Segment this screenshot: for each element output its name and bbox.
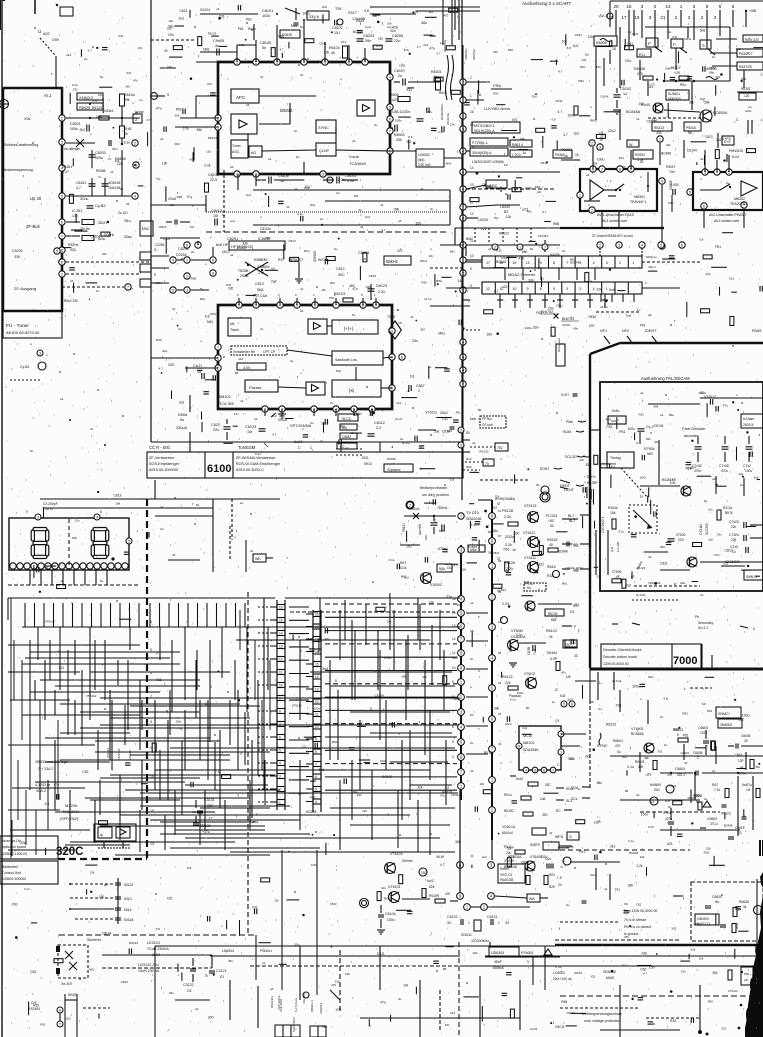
svg-text:P624: P624 <box>509 644 513 652</box>
svg-text:10: 10 <box>315 725 319 729</box>
svg-text:3Cnu: 3Cnu <box>80 197 88 201</box>
svg-text:10: 10 <box>452 666 456 670</box>
svg-text:9: 9 <box>315 738 317 742</box>
svg-text:Nu.: Nu. <box>715 900 720 904</box>
svg-text:EC: EC <box>556 809 561 813</box>
svg-text:2u2: 2u2 <box>567 698 573 702</box>
svg-text:C1al: C1al <box>260 294 267 298</box>
svg-text:X31: X31 <box>715 75 721 79</box>
svg-text:2u: 2u <box>664 743 668 747</box>
svg-text:Cu: Cu <box>160 527 164 531</box>
svg-text:A919.00-3000/00: A919.00-3000/00 <box>149 468 178 472</box>
svg-text:X31: X31 <box>729 276 735 280</box>
svg-text:5: 5 <box>279 749 281 753</box>
svg-text:Scr 2.1: Scr 2.1 <box>698 626 708 630</box>
svg-text:R6905: R6905 <box>596 41 607 45</box>
svg-text:R815a: R815a <box>124 93 135 97</box>
svg-text:C62: C62 <box>168 363 174 367</box>
svg-text:470: 470 <box>190 157 195 161</box>
svg-text:9: 9 <box>527 287 529 291</box>
svg-text:SMN?S: SMN?S <box>746 575 757 579</box>
svg-text:BC848: BC848 <box>496 260 506 264</box>
svg-text:39k: 39k <box>653 405 658 409</box>
svg-text:2u8: 2u8 <box>540 797 546 801</box>
svg-text:NDSu/u: NDSu/u <box>646 255 657 259</box>
svg-text:BC848: BC848 <box>724 823 733 827</box>
svg-text:C63B: C63B <box>527 647 531 655</box>
svg-text:SH8-: SH8- <box>124 127 133 131</box>
svg-text:1: 1 <box>645 281 647 285</box>
svg-text:C7x24: C7x24 <box>729 533 739 537</box>
svg-text:C62: C62 <box>82 770 88 774</box>
svg-text:5n: 5n <box>262 46 266 50</box>
svg-text:X5/370A: X5/370A <box>117 748 121 760</box>
svg-text:C8105: C8105 <box>260 41 271 45</box>
svg-text:DCNT: DCNT <box>564 488 575 492</box>
svg-text:1u: 1u <box>257 741 261 745</box>
svg-text:6.8: 6.8 <box>665 799 670 803</box>
svg-text:5u6: 5u6 <box>626 314 631 318</box>
svg-text:FPTsu: FPTsu <box>482 417 492 421</box>
svg-text:C813: C813 <box>521 861 529 865</box>
svg-text:u2: u2 <box>110 170 114 174</box>
svg-text:u23: u23 <box>392 98 398 102</box>
svg-text:10r: 10r <box>213 214 219 218</box>
svg-text:E2: E2 <box>220 975 224 979</box>
svg-text:22n: 22n <box>731 525 737 529</box>
svg-text:33n: 33n <box>580 458 585 462</box>
svg-text:6.8: 6.8 <box>552 117 556 121</box>
svg-text:R52: R52 <box>707 709 713 713</box>
svg-text:5C: 5C <box>550 524 555 528</box>
svg-text:4.00: 4.00 <box>243 366 250 370</box>
svg-text:C813: C813 <box>705 135 713 139</box>
svg-text:C9h05: C9h05 <box>213 39 224 43</box>
svg-text:C8103: C8103 <box>345 174 356 178</box>
svg-text:U-KYBD-Norm: U-KYBD-Norm <box>484 106 511 111</box>
svg-text:R7904: R7904 <box>644 447 655 451</box>
svg-text:U: U <box>38 29 41 34</box>
svg-text:1u: 1u <box>552 700 556 704</box>
svg-text:P61: P61 <box>40 1022 46 1026</box>
svg-text:4.7: 4.7 <box>563 133 568 137</box>
svg-text:10r: 10r <box>190 225 194 229</box>
svg-text:2u 5u0: 2u 5u0 <box>636 593 646 597</box>
svg-text:sync: sync <box>365 25 372 29</box>
svg-text:B4V1CC: B4V1CC <box>697 922 710 926</box>
svg-text:R6133: R6133 <box>548 612 558 616</box>
svg-text:LE3121: LE3121 <box>147 941 160 945</box>
svg-text:5FA9100: 5FA9100 <box>668 97 681 101</box>
svg-text:VT6101: VT6101 <box>388 885 401 889</box>
svg-text:R6123: R6123 <box>208 32 217 36</box>
svg-text:a: a <box>650 431 652 435</box>
svg-text:E5u: E5u <box>200 297 206 301</box>
svg-text:P61: P61 <box>683 733 689 737</box>
svg-text:7u: 7u <box>108 157 112 161</box>
svg-text:N6302/SDA: N6302/SDA <box>440 104 444 120</box>
svg-text:Decoder bottom board: Decoder bottom board <box>603 655 637 659</box>
svg-text:22k: 22k <box>642 952 648 956</box>
svg-text:2/32x: 2/32x <box>505 535 514 539</box>
svg-text:5j1k: 5j1k <box>439 567 446 571</box>
svg-text:16: 16 <box>470 145 474 149</box>
svg-text:R32: R32 <box>580 65 586 69</box>
svg-text:15n: 15n <box>75 519 80 523</box>
svg-text:100u: 100u <box>745 469 752 473</box>
svg-text:12k: 12k <box>582 58 587 62</box>
svg-text:1k2: 1k2 <box>66 1017 71 1021</box>
svg-text:u5: u5 <box>246 103 250 107</box>
svg-text:u5: u5 <box>126 202 130 206</box>
svg-text:Pin 4 is co-nected: Pin 4 is co-nected <box>624 925 651 929</box>
svg-text:15: 15 <box>612 47 616 51</box>
svg-text:22k: 22k <box>640 855 645 859</box>
svg-text:Fazant: Fazant <box>249 385 262 390</box>
svg-text:5: 5 <box>579 261 581 265</box>
svg-text:3C!: 3C! <box>572 455 577 459</box>
svg-text:100u: 100u <box>176 720 182 724</box>
svg-text:u23: u23 <box>502 285 508 289</box>
svg-text:13P: 13P <box>738 759 744 763</box>
svg-text:+5C: +5C <box>548 519 555 523</box>
svg-text:9: 9 <box>279 697 281 701</box>
svg-text:FRA: FRA <box>493 83 501 88</box>
svg-text:M61: M61 <box>291 24 298 28</box>
svg-text:NCO: NCO <box>222 250 230 254</box>
svg-text:111k: 111k <box>400 566 407 570</box>
svg-text:5u: 5u <box>100 75 104 79</box>
svg-text:Pb: Pb <box>695 615 699 619</box>
svg-text:47k: 47k <box>445 892 451 896</box>
svg-text:4: 4 <box>240 752 242 756</box>
svg-text:BC848: BC848 <box>550 253 560 257</box>
svg-text:2.2k: 2.2k <box>338 178 345 182</box>
svg-text:19: 19 <box>315 613 319 617</box>
svg-text:33n: 33n <box>242 242 248 246</box>
svg-text:L: L <box>684 687 686 691</box>
svg-text:MA/1u0: MA/1u0 <box>502 831 513 835</box>
svg-text:ELI: ELI <box>639 52 645 57</box>
svg-text:u23: u23 <box>724 562 729 566</box>
svg-text:15n: 15n <box>415 221 421 225</box>
svg-text:TuNGSM: TuNGSM <box>238 445 256 450</box>
svg-text:R6123: R6123 <box>479 449 488 453</box>
svg-text:BC848: BC848 <box>382 775 392 779</box>
svg-text:5u0: 5u0 <box>310 203 315 207</box>
svg-text:470: 470 <box>310 796 316 800</box>
svg-text:56n: 56n <box>450 249 455 253</box>
svg-text:C9uD: C9uD <box>168 197 177 201</box>
svg-text:C811: C811 <box>684 37 691 41</box>
svg-text:12k: 12k <box>362 809 367 813</box>
svg-text:(1)2: (1)2 <box>610 546 614 552</box>
svg-text:M61: M61 <box>239 43 245 47</box>
svg-text:67: 67 <box>497 502 501 506</box>
svg-text:u2: u2 <box>636 117 640 121</box>
svg-text:15n: 15n <box>494 216 499 220</box>
svg-text:C5u2: C5u2 <box>608 129 616 133</box>
svg-text:LD6304: LD6304 <box>222 949 234 953</box>
svg-text:1: 1 <box>470 94 472 98</box>
svg-text:2k2: 2k2 <box>585 755 590 759</box>
svg-text:6?1C: 6?1C <box>402 441 411 445</box>
svg-text:|+|+|: |+|+| <box>344 326 353 331</box>
svg-text:0.47: 0.47 <box>62 170 69 174</box>
svg-text:u2: u2 <box>268 157 272 161</box>
svg-text:u2: u2 <box>300 309 304 313</box>
svg-text:u2: u2 <box>160 137 164 141</box>
svg-text:0.1u: 0.1u <box>618 529 624 533</box>
svg-text:u23: u23 <box>522 208 528 212</box>
svg-text:x50/70w: x50/70w <box>472 48 476 60</box>
svg-text:2u2: 2u2 <box>179 16 185 20</box>
svg-text:7.2u: 7.2u <box>714 788 720 792</box>
svg-text:C813: C813 <box>114 493 122 497</box>
svg-text:X31: X31 <box>671 926 677 930</box>
svg-text:LD3122 22u: LD3122 22u <box>138 963 159 967</box>
svg-text:2: 2 <box>460 428 462 432</box>
svg-text:R32: R32 <box>639 413 645 417</box>
svg-text:R66: R66 <box>191 277 197 281</box>
svg-text:R3.2a: R3.2a <box>723 506 732 510</box>
svg-text:BC848: BC848 <box>387 457 396 461</box>
svg-text:5u: 5u <box>180 418 184 422</box>
svg-text:56n: 56n <box>356 412 362 416</box>
svg-text:130: 130 <box>72 214 78 218</box>
svg-text:R6123: R6123 <box>208 136 217 140</box>
svg-text:6.9P: 6.9P <box>550 657 558 661</box>
svg-text:P6117: P6117 <box>402 523 406 532</box>
svg-text:Cu2: Cu2 <box>72 83 78 87</box>
svg-text:u3: u3 <box>604 887 608 891</box>
svg-text:7u: 7u <box>98 175 102 179</box>
svg-text:3u: 3u <box>712 769 716 773</box>
svg-text:P60: P60 <box>744 972 750 976</box>
svg-text:15: 15 <box>279 619 283 623</box>
svg-text:45: 45 <box>549 543 553 547</box>
svg-text:4.7: 4.7 <box>272 433 277 437</box>
svg-text:0.1u: 0.1u <box>124 140 131 144</box>
svg-text:15n: 15n <box>321 288 326 292</box>
svg-text:12: 12 <box>315 700 319 704</box>
svg-text:47u: 47u <box>427 110 432 114</box>
svg-text:R66: R66 <box>508 48 514 52</box>
svg-text:C6608: C6608 <box>693 751 703 755</box>
svg-text:FBAS: FBAS <box>752 329 762 333</box>
svg-text:L06302: L06302 <box>418 153 430 157</box>
svg-text:M61: M61 <box>562 581 568 585</box>
svg-text:I: I <box>382 21 383 26</box>
svg-text:G9V: G9V <box>52 38 60 42</box>
svg-text:Secondary: Secondary <box>698 621 714 625</box>
svg-text:C811: C811 <box>377 952 385 956</box>
svg-text:C5u: C5u <box>412 339 418 343</box>
svg-text:C6102: C6102 <box>447 915 458 919</box>
svg-text:3C: 3C <box>574 654 579 658</box>
svg-text:+37u: +37u <box>202 830 210 834</box>
svg-text:470: 470 <box>397 249 403 253</box>
svg-text:C8251: C8251 <box>227 237 238 241</box>
svg-text:R2-: R2- <box>573 604 578 608</box>
svg-text:22uH 100 nA: 22uH 100 nA <box>553 977 572 981</box>
svg-text:2u2: 2u2 <box>482 855 487 859</box>
svg-text:5: 5 <box>370 707 372 711</box>
svg-text:2u: 2u <box>470 741 474 745</box>
svg-text:2u: 2u <box>240 501 244 505</box>
svg-text:P61: P61 <box>619 430 625 434</box>
svg-text:C8102: C8102 <box>332 26 343 30</box>
svg-text:4.7: 4.7 <box>381 228 386 232</box>
svg-text:R67: R67 <box>400 561 406 565</box>
svg-text:M61: M61 <box>535 185 541 189</box>
svg-text:3: 3 <box>39 351 41 355</box>
svg-text:AFC: AFC <box>236 95 246 100</box>
svg-text:C8254: C8254 <box>178 247 189 251</box>
svg-text:C6104: C6104 <box>91 234 101 238</box>
svg-text:C8203: C8203 <box>363 34 374 38</box>
svg-text:22k: 22k <box>739 472 744 476</box>
svg-text:45u: 45u <box>228 959 233 963</box>
svg-text:C8110: C8110 <box>211 209 222 213</box>
svg-text:5u: 5u <box>196 503 200 507</box>
svg-text:47u: 47u <box>561 671 566 675</box>
svg-text:330: 330 <box>420 328 425 332</box>
svg-text:OPT CP: OPT CP <box>263 350 276 354</box>
svg-text:33: 33 <box>505 921 509 925</box>
svg-text:TCA 355: TCA 355 <box>219 402 234 406</box>
svg-text:5u3: 5u3 <box>560 694 566 698</box>
svg-text:R32: R32 <box>421 280 427 284</box>
svg-text:Up 30: Up 30 <box>30 196 42 201</box>
svg-text:5.04: 5.04 <box>732 155 739 159</box>
svg-text:1k2: 1k2 <box>428 10 433 14</box>
svg-text:20: 20 <box>613 4 619 9</box>
svg-text:X4|6|3.3: X4|6|3.3 <box>79 96 93 100</box>
svg-text:5u: 5u <box>200 287 204 291</box>
svg-text:10: 10 <box>279 684 283 688</box>
svg-text:1u: 1u <box>523 151 527 155</box>
svg-text:6u1C: 6u1C <box>294 440 303 444</box>
svg-text:100u: 100u <box>70 127 78 131</box>
svg-text:BC848: BC848 <box>629 851 638 855</box>
svg-text:4.7: 4.7 <box>542 210 546 214</box>
svg-text:334: 334 <box>656 131 662 135</box>
svg-text:VT6u0: VT6u0 <box>504 859 514 863</box>
svg-text:P61: P61 <box>640 323 646 327</box>
svg-text:47u: 47u <box>380 1000 386 1004</box>
svg-text:M6302: M6302 <box>734 197 745 201</box>
svg-text:u5u: u5u <box>666 143 671 147</box>
svg-text:68u: 68u <box>169 991 174 995</box>
svg-text:R32: R32 <box>670 1019 676 1023</box>
svg-text:17: 17 <box>315 638 319 642</box>
svg-text:12k: 12k <box>537 190 542 194</box>
svg-text:5314: 5314 <box>124 908 132 912</box>
svg-text:R52: R52 <box>176 108 182 112</box>
svg-text:2k2: 2k2 <box>706 272 711 276</box>
svg-text:M61: M61 <box>439 331 446 335</box>
svg-text:4: 4 <box>96 515 98 519</box>
svg-text:22k: 22k <box>505 681 511 685</box>
svg-text:37Cu: 37Cu <box>710 822 718 826</box>
svg-text:2.2k: 2.2k <box>505 543 512 547</box>
svg-text:R6123: R6123 <box>606 722 616 726</box>
svg-text:47u: 47u <box>723 404 728 408</box>
svg-text:10k: 10k <box>162 162 168 166</box>
svg-text:2u: 2u <box>740 483 744 487</box>
svg-text:100u: 100u <box>311 863 318 867</box>
svg-text:MA/6: MA/6 <box>606 976 614 980</box>
svg-text:6: 6 <box>59 1008 61 1012</box>
svg-text:X31: X31 <box>73 88 79 92</box>
svg-text:5u6: 5u6 <box>118 34 123 38</box>
svg-text:PAA/1GB: PAA/1GB <box>500 878 513 882</box>
svg-text:330: 330 <box>493 50 498 54</box>
svg-text:0.1u: 0.1u <box>389 558 395 562</box>
svg-text:22k: 22k <box>387 619 392 623</box>
svg-text:50u: 50u <box>330 281 335 285</box>
svg-text:16: 16 <box>452 597 456 601</box>
svg-text:27003: 27003 <box>676 533 686 537</box>
svg-text:C6104: C6104 <box>654 424 664 428</box>
svg-text:6.8: 6.8 <box>450 478 455 482</box>
svg-text:16: 16 <box>315 650 319 654</box>
svg-text:C6104: C6104 <box>562 323 570 327</box>
svg-text:u3: u3 <box>360 225 364 229</box>
svg-text:C8u2: C8u2 <box>440 411 448 415</box>
svg-text:Su5u: Su5u <box>612 409 620 413</box>
svg-text:SOS-Empfaenger: SOS-Empfaenger <box>149 462 180 466</box>
svg-text:330: 330 <box>422 675 427 679</box>
svg-text:BC848A: BC848A <box>626 110 641 114</box>
svg-text:C6600: C6600 <box>707 817 717 821</box>
svg-text:17: 17 <box>130 287 134 291</box>
svg-text:C813: C813 <box>369 274 377 278</box>
svg-text:25: 25 <box>498 651 502 655</box>
svg-text:R52Hz: R52Hz <box>68 243 79 247</box>
svg-text:2u: 2u <box>726 181 730 185</box>
svg-text:39k: 39k <box>704 100 710 104</box>
svg-text:11: 11 <box>452 651 456 655</box>
svg-text:9: 9 <box>452 680 454 684</box>
svg-text:1u: 1u <box>205 974 209 978</box>
svg-text:(SFF4052): (SFF4052) <box>60 817 79 821</box>
svg-text:2u: 2u <box>566 903 570 907</box>
svg-text:15: 15 <box>470 123 474 127</box>
svg-text:22: 22 <box>738 831 742 835</box>
svg-text:10k: 10k <box>115 502 120 506</box>
svg-text:22u: 22u <box>213 428 219 432</box>
svg-text:0.1u: 0.1u <box>627 765 634 769</box>
svg-text:1u: 1u <box>640 495 644 499</box>
svg-text:C813: C813 <box>330 902 337 906</box>
svg-text:u5: u5 <box>470 769 474 773</box>
svg-text:2uC5: 2uC5 <box>530 1027 538 1031</box>
svg-text:over voltage protection: over voltage protection <box>584 1019 620 1023</box>
svg-text:1k2: 1k2 <box>492 505 497 509</box>
svg-text:NF2: NF2 <box>622 329 629 333</box>
svg-text:C6619: C6619 <box>735 826 745 830</box>
svg-text:4.1203 gr: 4.1203 gr <box>35 783 51 787</box>
svg-text:R637/29: R637/29 <box>739 65 752 69</box>
svg-text:u2: u2 <box>300 287 304 291</box>
svg-text:VT6103: VT6103 <box>390 852 403 856</box>
svg-text:6.8: 6.8 <box>664 696 669 700</box>
svg-text:Xe.3!2!: Xe.3!2! <box>61 982 72 986</box>
svg-text:800mA: 800mA <box>493 966 504 970</box>
svg-text:4.7: 4.7 <box>76 186 81 190</box>
